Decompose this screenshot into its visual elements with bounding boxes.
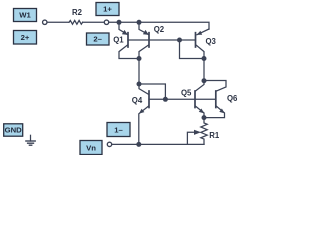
- wire bottom rail: [112, 143, 204, 145]
- terminal box 2+: [14, 31, 37, 45]
- transistor Q4: [148, 91, 150, 108]
- junction dot Q1Q2 collectors: [137, 56, 142, 61]
- svg-text:Q4: Q4: [132, 96, 143, 105]
- resistor R2: [69, 20, 83, 24]
- svg-text:1+: 1+: [103, 5, 112, 14]
- node Vn terminal: [107, 142, 111, 146]
- terminal box GND: [4, 124, 23, 136]
- arrow Q5 emitter: [199, 109, 204, 114]
- junction dot Q3 collector lower: [202, 78, 207, 83]
- svg-text:2+: 2+: [21, 33, 30, 42]
- junction dot pnp base rail: [177, 38, 182, 43]
- transistor Q3: [197, 29, 209, 35]
- svg-text:1–: 1–: [114, 125, 123, 134]
- wire Q4 collector-base tie: [139, 84, 165, 99]
- terminal box Vn: [80, 141, 102, 155]
- wire Q1Q2 collectors down to Q4: [139, 59, 148, 95]
- wire R2 to node 1+: [83, 21, 104, 23]
- wire pnp base rail: [128, 39, 196, 41]
- svg-text:R1: R1: [209, 131, 220, 140]
- terminal box 1-: [107, 123, 130, 137]
- terminal box 1+: [96, 3, 119, 16]
- wire W1 to R2: [47, 21, 69, 23]
- svg-text:GND: GND: [5, 126, 23, 135]
- resistor R1: [201, 118, 207, 145]
- arrow Q3 emitter: [197, 31, 203, 35]
- junction dot Q2 emitter: [137, 20, 142, 25]
- svg-text:R2: R2: [72, 8, 83, 17]
- junction dot bottom rail: [136, 142, 141, 147]
- ground: [30, 135, 32, 141]
- transistor Q5: [194, 91, 196, 108]
- arrow Q4 emitter: [139, 109, 145, 114]
- arrow R1 wiper: [194, 130, 201, 135]
- junction dot R1 top: [202, 115, 207, 120]
- svg-text:Q3: Q3: [205, 37, 216, 46]
- wire npn base rail: [149, 98, 216, 100]
- wire R1 wiper to bottom: [187, 132, 194, 144]
- terminal box 2-: [87, 33, 110, 45]
- node W1 terminal: [43, 20, 47, 24]
- terminal box W1: [14, 9, 37, 22]
- transistor Q1: [119, 22, 127, 34]
- junction dot Q4 collector tie: [137, 82, 142, 87]
- arrow Q1 emitter: [122, 30, 128, 35]
- svg-text:Q5: Q5: [181, 88, 192, 97]
- svg-text:Q6: Q6: [227, 94, 238, 103]
- wire top rail: [109, 22, 209, 29]
- junction dot Q3 collector upper: [202, 56, 207, 61]
- transistor Q6: [215, 91, 217, 108]
- svg-text:W1: W1: [19, 11, 31, 20]
- svg-text:Q1: Q1: [113, 36, 124, 45]
- arrow Q2 emitter: [143, 30, 149, 35]
- junction dot Q1 emitter: [117, 20, 122, 25]
- transistor Q2: [139, 22, 148, 34]
- node 1+ terminal: [104, 20, 108, 24]
- svg-text:Vn: Vn: [86, 143, 96, 152]
- wire base to Q3 collector: [180, 40, 205, 59]
- junction dot npn base rail: [163, 97, 168, 102]
- svg-text:2–: 2–: [93, 35, 102, 44]
- arrow Q6 emitter: [219, 109, 224, 114]
- svg-text:Q2: Q2: [154, 25, 165, 34]
